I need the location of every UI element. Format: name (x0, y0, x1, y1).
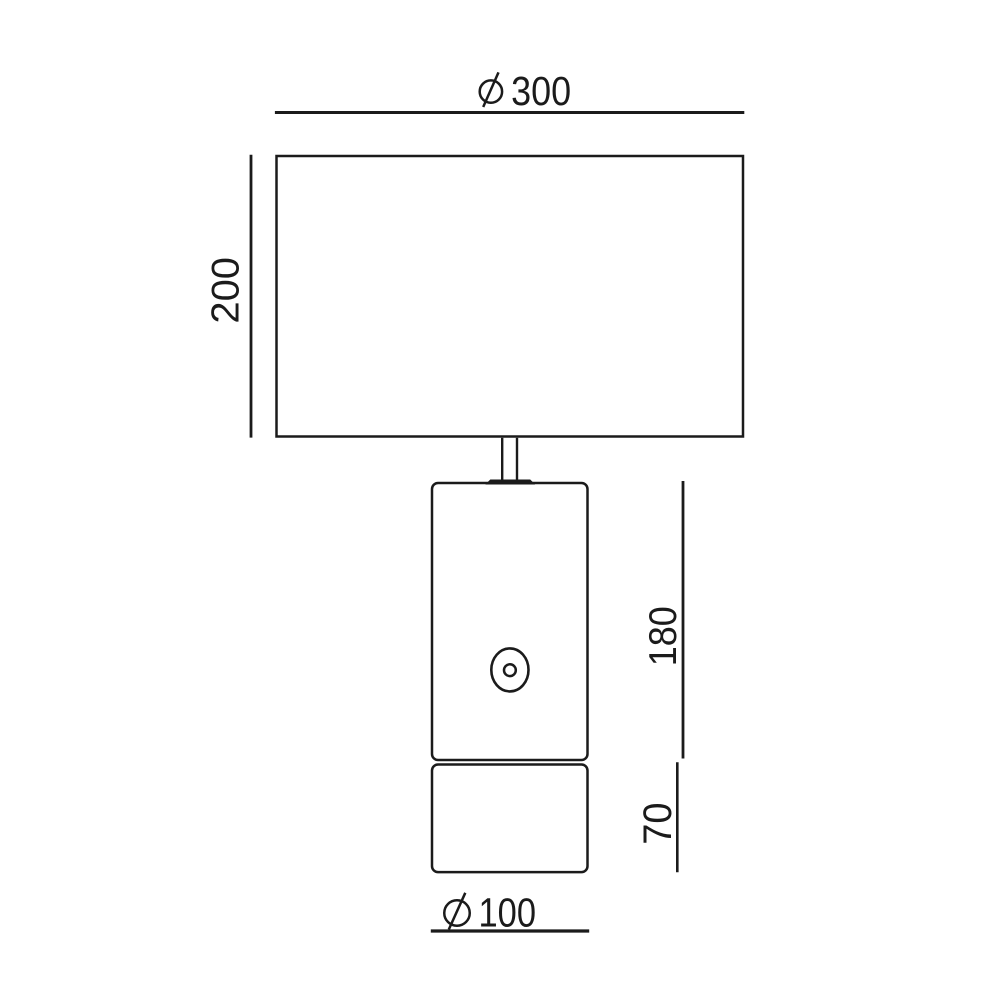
diameter symbol of Ø300 label (480, 72, 502, 107)
dimension line 200 (left height line) (250, 155, 253, 438)
svg-text:300: 300 (511, 68, 571, 114)
svg-text:180: 180 (642, 606, 685, 666)
svg-text:70: 70 (636, 803, 680, 845)
stem left line (501, 438, 503, 481)
dimension line 180 (right, body height) (682, 481, 685, 759)
lamp base lower section (432, 765, 588, 873)
svg-text:200: 200 (204, 257, 247, 324)
lamp body upper section (432, 483, 588, 760)
diameter symbol of Ø100 label (444, 893, 470, 930)
dimension line Ø100 (bottom width line) (431, 929, 589, 932)
switch inner dot (504, 664, 516, 676)
stem right line (516, 438, 518, 481)
switch outer ring (491, 648, 528, 691)
dimension line 70 (right, base height) (676, 762, 679, 872)
dimension line Ø300 (top width line) (275, 111, 744, 114)
svg-text:100: 100 (479, 890, 537, 936)
stem collar bar (487, 480, 535, 484)
lampshade outline (277, 156, 744, 437)
